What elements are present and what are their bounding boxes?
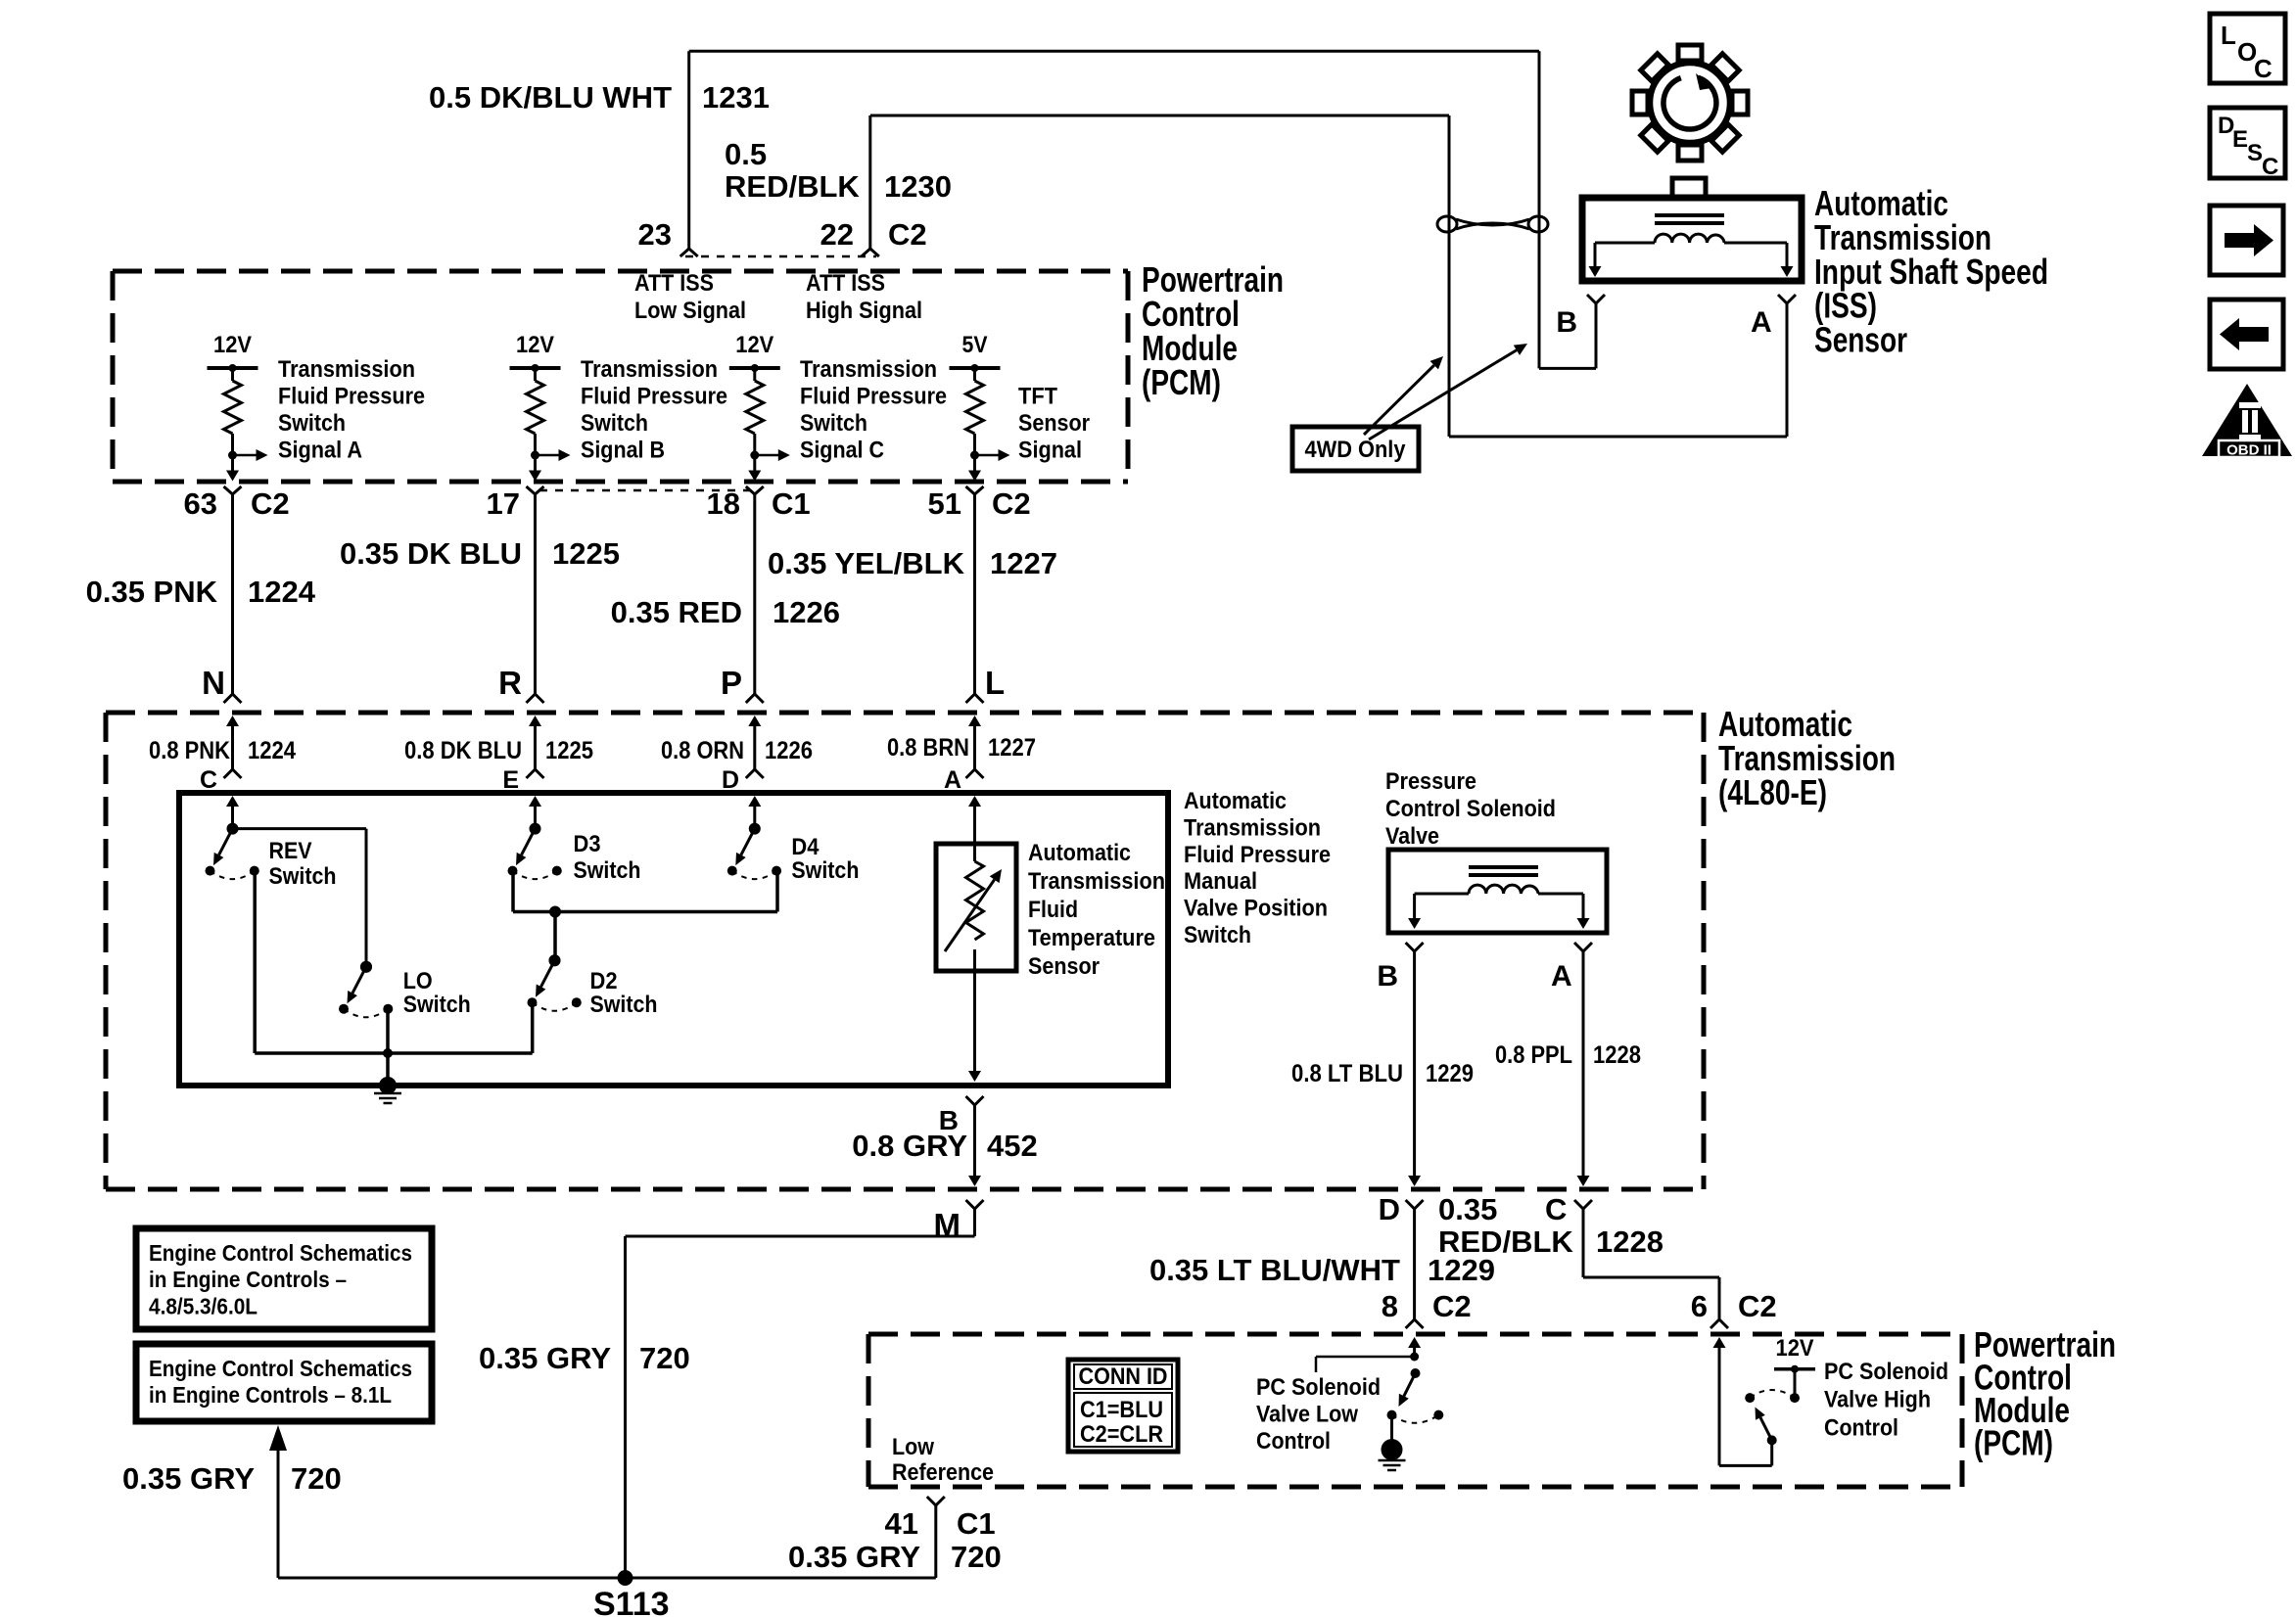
svg-text:0.8 BRN: 0.8 BRN: [887, 734, 969, 762]
svg-text:L: L: [985, 665, 1005, 701]
svg-text:0.35 GRY: 0.35 GRY: [788, 1540, 920, 1574]
svg-text:Valve High: Valve High: [1824, 1387, 1931, 1413]
svg-text:4WD Only: 4WD Only: [1305, 437, 1407, 463]
svg-text:Signal B: Signal B: [581, 437, 665, 463]
svg-text:A: A: [1551, 960, 1572, 993]
svg-text:720: 720: [951, 1540, 1002, 1574]
svg-text:RED/BLK: RED/BLK: [725, 169, 860, 204]
svg-text:4.8/5.3/6.0L: 4.8/5.3/6.0L: [149, 1293, 258, 1318]
svg-text:Switch: Switch: [278, 410, 346, 437]
svg-text:OBD II: OBD II: [2226, 442, 2272, 459]
svg-text:1225: 1225: [552, 536, 620, 571]
svg-text:0.35 PNK: 0.35 PNK: [86, 575, 218, 609]
svg-text:Transmission: Transmission: [1028, 868, 1165, 895]
svg-text:Pressure: Pressure: [1385, 768, 1476, 795]
svg-text:17: 17: [487, 486, 520, 521]
svg-text:Switch: Switch: [791, 857, 859, 884]
svg-text:1226: 1226: [773, 595, 840, 629]
svg-text:C1=BLU: C1=BLU: [1080, 1397, 1163, 1423]
svg-text:S: S: [2247, 140, 2263, 166]
svg-text:51: 51: [928, 486, 961, 521]
svg-text:1228: 1228: [1596, 1224, 1663, 1259]
svg-text:Transmission: Transmission: [581, 356, 718, 383]
svg-text:0.35 RED: 0.35 RED: [611, 595, 742, 629]
svg-text:Signal A: Signal A: [278, 437, 362, 463]
svg-text:Manual: Manual: [1184, 868, 1257, 895]
svg-text:22: 22: [820, 217, 854, 252]
svg-text:Sensor: Sensor: [1814, 320, 1907, 360]
svg-text:Transmission: Transmission: [1184, 814, 1321, 841]
svg-text:Switch: Switch: [574, 857, 641, 884]
svg-text:1229: 1229: [1426, 1060, 1474, 1087]
svg-text:C: C: [2254, 54, 2273, 83]
svg-text:D3: D3: [574, 831, 601, 857]
svg-text:C: C: [200, 766, 217, 794]
svg-text:Switch: Switch: [269, 863, 337, 890]
svg-text:(PCM): (PCM): [1974, 1423, 2053, 1463]
svg-text:TFT: TFT: [1018, 384, 1057, 410]
svg-text:6: 6: [1691, 1289, 1708, 1323]
svg-text:0.5 DK/BLU WHT: 0.5 DK/BLU WHT: [429, 80, 672, 115]
svg-text:D2: D2: [590, 968, 618, 994]
svg-text:Temperature: Temperature: [1028, 925, 1155, 951]
svg-text:18: 18: [707, 486, 740, 521]
svg-text:12V: 12V: [735, 332, 773, 358]
svg-text:Control: Control: [1256, 1428, 1331, 1455]
svg-text:E: E: [2232, 126, 2248, 153]
svg-text:Switch: Switch: [800, 410, 867, 437]
svg-text:Automatic: Automatic: [1184, 788, 1287, 814]
svg-text:Signal C: Signal C: [800, 437, 884, 463]
svg-text:1228: 1228: [1593, 1041, 1641, 1069]
svg-text:0.35 LT BLU/WHT: 0.35 LT BLU/WHT: [1149, 1253, 1400, 1287]
svg-text:C2: C2: [1738, 1289, 1777, 1323]
svg-text:Engine Control Schematics: Engine Control Schematics: [149, 1240, 412, 1266]
svg-text:0.8 PNK: 0.8 PNK: [149, 737, 230, 764]
svg-text:S113: S113: [593, 1586, 670, 1617]
svg-text:0.8 PPL: 0.8 PPL: [1495, 1041, 1572, 1069]
svg-text:23: 23: [638, 217, 672, 252]
svg-text:Switch: Switch: [581, 410, 648, 437]
svg-text:Switch: Switch: [403, 992, 471, 1018]
svg-text:C2: C2: [251, 486, 290, 521]
svg-text:Control Solenoid: Control Solenoid: [1385, 796, 1556, 822]
svg-text:Switch: Switch: [590, 992, 658, 1018]
svg-text:N: N: [202, 665, 225, 701]
svg-text:C2: C2: [888, 217, 927, 252]
svg-text:0.8 GRY: 0.8 GRY: [852, 1129, 967, 1163]
svg-text:0.8 DK BLU: 0.8 DK BLU: [404, 737, 522, 764]
svg-text:R: R: [498, 665, 522, 701]
svg-text:B: B: [1556, 306, 1577, 339]
svg-text:REV: REV: [269, 838, 312, 864]
svg-text:C: C: [2262, 154, 2278, 180]
svg-text:High Signal: High Signal: [806, 298, 922, 324]
svg-text:Sensor: Sensor: [1018, 410, 1090, 437]
svg-text:Automatic: Automatic: [1028, 840, 1131, 866]
svg-text:720: 720: [291, 1461, 342, 1496]
svg-text:Sensor: Sensor: [1028, 953, 1100, 980]
svg-text:63: 63: [184, 486, 217, 521]
svg-text:Fluid Pressure: Fluid Pressure: [278, 384, 425, 410]
svg-text:0.8 LT BLU: 0.8 LT BLU: [1291, 1060, 1403, 1087]
svg-text:1231: 1231: [702, 80, 770, 115]
svg-text:720: 720: [639, 1341, 690, 1375]
svg-text:12V: 12V: [1776, 1335, 1814, 1362]
svg-text:P: P: [721, 665, 742, 701]
svg-text:A: A: [944, 766, 961, 794]
svg-text:Low Signal: Low Signal: [634, 298, 746, 324]
svg-text:C2=CLR: C2=CLR: [1080, 1421, 1163, 1448]
svg-text:D: D: [722, 766, 739, 794]
svg-text:A: A: [1751, 306, 1772, 339]
svg-text:8: 8: [1382, 1289, 1398, 1323]
svg-text:(PCM): (PCM): [1142, 362, 1221, 402]
svg-text:Reference: Reference: [892, 1459, 994, 1486]
svg-text:0.35: 0.35: [1438, 1192, 1497, 1226]
svg-text:Transmission: Transmission: [800, 356, 937, 383]
svg-text:(4L80-E): (4L80-E): [1718, 772, 1827, 812]
svg-text:PC Solenoid: PC Solenoid: [1824, 1359, 1948, 1385]
svg-text:D4: D4: [791, 834, 820, 860]
svg-text:0.8 ORN: 0.8 ORN: [661, 737, 744, 764]
svg-text:C2: C2: [992, 486, 1031, 521]
svg-text:PC Solenoid: PC Solenoid: [1256, 1374, 1381, 1401]
svg-text:in Engine Controls –: in Engine Controls –: [149, 1267, 347, 1292]
svg-text:Low: Low: [892, 1434, 934, 1460]
svg-text:0.35 DK BLU: 0.35 DK BLU: [340, 536, 522, 571]
svg-text:Control: Control: [1824, 1414, 1898, 1441]
svg-text:1225: 1225: [545, 737, 593, 764]
svg-text:1229: 1229: [1428, 1253, 1495, 1287]
svg-text:LO: LO: [403, 968, 433, 994]
svg-text:D: D: [1379, 1192, 1400, 1226]
svg-text:Fluid Pressure: Fluid Pressure: [800, 384, 947, 410]
svg-text:1226: 1226: [765, 737, 813, 764]
svg-text:12V: 12V: [213, 332, 252, 358]
svg-text:in Engine Controls – 8.1L: in Engine Controls – 8.1L: [149, 1382, 392, 1408]
svg-text:Engine Control Schematics: Engine Control Schematics: [149, 1356, 412, 1381]
svg-text:L: L: [2221, 21, 2236, 50]
svg-text:Switch: Switch: [1184, 922, 1251, 948]
svg-text:C2: C2: [1432, 1289, 1472, 1323]
svg-text:CONN ID: CONN ID: [1079, 1363, 1168, 1390]
svg-text:Transmission: Transmission: [278, 356, 415, 383]
svg-text:Fluid Pressure: Fluid Pressure: [581, 384, 727, 410]
svg-text:1227: 1227: [990, 546, 1057, 580]
svg-text:1224: 1224: [248, 575, 316, 609]
svg-text:1224: 1224: [248, 737, 296, 764]
svg-text:ATT ISS: ATT ISS: [634, 270, 714, 297]
svg-text:Fluid: Fluid: [1028, 897, 1078, 923]
svg-text:Valve Position: Valve Position: [1184, 896, 1328, 922]
svg-text:ATT ISS: ATT ISS: [806, 270, 885, 297]
svg-text:0.35 GRY: 0.35 GRY: [479, 1341, 611, 1375]
svg-text:41: 41: [885, 1506, 918, 1541]
svg-text:E: E: [502, 766, 519, 794]
svg-text:Fluid Pressure: Fluid Pressure: [1184, 842, 1331, 868]
svg-text:12V: 12V: [516, 332, 554, 358]
svg-text:C: C: [1545, 1192, 1567, 1226]
svg-text:0.35 GRY: 0.35 GRY: [122, 1461, 255, 1496]
svg-text:1230: 1230: [884, 169, 952, 204]
svg-text:C1: C1: [957, 1506, 996, 1541]
svg-text:452: 452: [987, 1129, 1038, 1163]
svg-text:C1: C1: [772, 486, 811, 521]
svg-text:1227: 1227: [988, 734, 1036, 762]
svg-text:Signal: Signal: [1018, 437, 1082, 463]
svg-text:5V: 5V: [962, 332, 988, 358]
svg-text:Valve Low: Valve Low: [1256, 1402, 1358, 1428]
svg-text:Valve: Valve: [1385, 823, 1439, 850]
svg-text:0.35 YEL/BLK: 0.35 YEL/BLK: [768, 546, 965, 580]
svg-text:0.5: 0.5: [725, 137, 767, 171]
svg-text:B: B: [1377, 960, 1398, 993]
